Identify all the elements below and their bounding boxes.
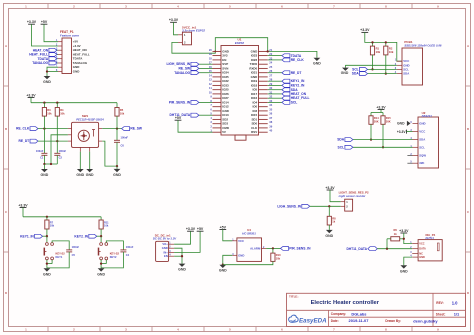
wire R10 to gnd — [223, 261, 273, 264]
IC U2 DS3231 — [410, 111, 438, 168]
net flag HEAT_FULL (ESP32) — [268, 96, 310, 100]
ground ESP32 right — [313, 58, 321, 66]
wire ALARM to PIR_SENS_IN — [266, 247, 280, 249]
svg-text:SW1: SW1 — [82, 114, 89, 118]
resistor R7 10k — [45, 217, 55, 229]
svg-text:37: 37 — [269, 116, 272, 120]
svg-text:32K: 32K — [419, 161, 424, 165]
svg-text:3.3v from ESP32: 3.3v from ESP32 — [182, 28, 205, 32]
svg-text:+3.3V: +3.3V — [376, 105, 386, 109]
IC U1 ESP32 — [209, 37, 273, 140]
wire P1 GND pins — [46, 67, 58, 76]
wire encoder switch pin B down — [102, 141, 118, 167]
rotary encoder SW1 PEC11R — [68, 114, 104, 151]
svg-text:C2: C2 — [59, 156, 63, 160]
svg-text:R3: R3 — [47, 108, 51, 112]
power flag +5V (DC-DC) — [197, 227, 204, 231]
svg-text:DS3231: DS3231 — [422, 114, 433, 118]
svg-text:SDA: SDA — [419, 138, 425, 142]
svg-text:1/1: 1/1 — [454, 312, 460, 317]
svg-text:PEC11R-4015F-S0024: PEC11R-4015F-S0024 — [76, 118, 104, 122]
svg-text:EasyEDA: EasyEDA — [299, 318, 327, 325]
resistor R2 10k — [384, 41, 394, 55]
resistor R6 1k — [387, 228, 404, 241]
svg-text:R11: R11 — [104, 220, 109, 224]
svg-text:Sheet:: Sheet: — [436, 313, 446, 317]
ground P1 — [43, 76, 51, 84]
wire LIGH_SENS node — [310, 205, 341, 207]
power flag +3.3V (VCC_int) — [169, 18, 179, 22]
svg-text:10k: 10k — [104, 224, 109, 228]
svg-text:GND: GND — [397, 122, 405, 126]
no-connect SQW — [407, 154, 412, 156]
resistor R4 10k — [55, 108, 65, 117]
svg-text:Date:: Date: — [331, 319, 339, 323]
svg-text:KEY2: KEY2 — [110, 255, 117, 259]
svg-text:R10: R10 — [276, 253, 281, 257]
svg-text:+5V: +5V — [41, 20, 48, 24]
wire encoder switch to RE_SW — [102, 116, 121, 130]
ground DC-DC — [178, 264, 186, 272]
svg-text:+3.3V: +3.3V — [26, 93, 36, 97]
wire DC-DC GND/EN — [174, 248, 183, 263]
power flag +3.3V (keys) — [18, 203, 28, 207]
svg-text:100nF: 100nF — [59, 149, 67, 153]
net flag TDATA — [38, 57, 58, 61]
svg-text:R2: R2 — [389, 46, 393, 50]
svg-text:B: B — [5, 127, 7, 131]
svg-text:Drawn By:: Drawn By: — [385, 319, 401, 323]
power flag +3.3V (DHT11) — [399, 229, 409, 233]
power flag +5V (ESP32) — [175, 116, 213, 132]
svg-text:+5V: +5V — [197, 227, 204, 231]
switch KEY2 — [99, 236, 120, 260]
resistor R1 10k — [370, 41, 380, 55]
svg-text:10k: 10k — [276, 257, 281, 261]
svg-text:+3.3V: +3.3V — [18, 203, 28, 207]
ground KEY1 — [43, 268, 51, 276]
resistor R10 10k — [271, 248, 281, 261]
capacitor C4 100nF — [101, 241, 134, 268]
svg-text:C1: C1 — [40, 156, 44, 160]
svg-text:RE_CLK: RE_CLK — [291, 58, 305, 62]
ground encoder switch — [113, 166, 121, 177]
net flag SDA (OLED) — [352, 72, 397, 76]
svg-text:35: 35 — [269, 107, 272, 111]
svg-text:NC: NC — [419, 253, 423, 256]
ground encoder shield A — [76, 169, 84, 177]
net flag HEAT_ON (ESP32) — [268, 92, 307, 96]
svg-text:Feature conn: Feature conn — [60, 34, 79, 38]
wire R1 to SCL — [371, 55, 373, 71]
svg-text:D: D — [467, 291, 469, 295]
net flag PIR_SENS_IN — [281, 247, 312, 251]
IC DHT1 DHT11 — [410, 233, 442, 261]
svg-text:C5: C5 — [72, 253, 76, 257]
net flag KEY2_IN — [74, 234, 96, 238]
resistor R14 20K — [369, 116, 379, 125]
svg-text:39: 39 — [269, 124, 272, 128]
power flag +5V (PIR) — [219, 225, 226, 229]
power flag +3.3V (DC-DC) — [186, 227, 196, 231]
svg-text:C4: C4 — [126, 253, 130, 257]
svg-text:LIGH_SENS_IN: LIGH_SENS_IN — [277, 204, 301, 208]
svg-text:10k: 10k — [60, 111, 65, 115]
svg-text:PIR_SENS_IN: PIR_SENS_IN — [289, 247, 311, 251]
component U3 5VCC_in1 — [178, 25, 205, 44]
wire R2 to SDA — [385, 55, 387, 75]
wire DHT GND — [404, 257, 412, 265]
svg-text:R4: R4 — [60, 108, 64, 112]
net flag LIGH_SENS_IN — [277, 204, 309, 208]
svg-text:DGLabs: DGLabs — [351, 311, 367, 316]
wire encoder common to gnd rail — [51, 135, 68, 164]
ground KEY2 — [97, 268, 105, 276]
net flag SCL (OLED) — [352, 68, 397, 72]
wire +3.3V to LDR pin1 — [330, 190, 341, 202]
svg-text:GND: GND — [178, 268, 186, 272]
svg-text:10k: 10k — [376, 50, 381, 54]
svg-text:R15: R15 — [386, 116, 391, 120]
svg-text:GND: GND — [400, 269, 408, 273]
svg-text:SCL: SCL — [291, 101, 298, 105]
svg-text:100nF: 100nF — [121, 135, 129, 139]
wire RE_CLK — [38, 116, 68, 130]
power flag +3.3V (encoder) — [26, 93, 36, 97]
svg-text:R8: R8 — [332, 216, 336, 220]
svg-text:100nF: 100nF — [126, 245, 134, 249]
svg-text:34: 34 — [269, 103, 272, 107]
net flag TANALOG — [32, 61, 58, 65]
svg-text:KEY-S2: KEY-S2 — [56, 252, 66, 256]
power flag +3.3V (light sensor) — [325, 186, 335, 190]
svg-text:38: 38 — [269, 120, 272, 124]
net flag RE_DT — [18, 139, 38, 143]
svg-text:36: 36 — [269, 112, 272, 116]
svg-text:TANALOG: TANALOG — [32, 61, 48, 65]
svg-text:GND: GND — [419, 121, 425, 125]
svg-text:13: 13 — [209, 78, 212, 82]
svg-text:DHT11: DHT11 — [426, 236, 435, 240]
net flag KEY2_IN (ESP32) — [268, 84, 305, 88]
capacitor C2 100nF — [54, 141, 66, 164]
wire R15 to SCL — [382, 124, 384, 148]
svg-text:14: 14 — [209, 73, 212, 77]
wire +3.3V to P1 pin2 — [32, 24, 59, 46]
svg-text:KEY-S2: KEY-S2 — [110, 252, 120, 256]
svg-text:Company:: Company: — [331, 312, 346, 316]
svg-text:RSV: RSV — [251, 130, 257, 134]
svg-text:10k: 10k — [47, 111, 52, 115]
ground encoder caps — [41, 164, 49, 177]
wire KEY1 bottom to gnd — [46, 260, 52, 269]
svg-text:+3.3V: +3.3V — [169, 18, 179, 22]
ground light sensor — [325, 225, 333, 238]
net flag LIGH_SENS_IN (ESP32) — [167, 62, 213, 66]
title block — [287, 293, 466, 326]
svg-text:27: 27 — [269, 73, 272, 77]
svg-text:B: B — [467, 127, 469, 131]
no-connect 32K — [407, 162, 412, 164]
wire +5V to PIR VCC — [223, 230, 233, 241]
ground OLED — [341, 65, 397, 75]
wire +5V to IN+ — [174, 231, 200, 252]
svg-text:20K: 20K — [386, 120, 391, 124]
svg-text:+5V: +5V — [175, 116, 182, 120]
net flag RE_CLK — [16, 127, 38, 131]
resistor R8 1k — [327, 206, 336, 225]
resistor R11 10k — [99, 217, 109, 229]
wire +3.3V to VO+ — [174, 231, 190, 244]
svg-text:HC-SR501: HC-SR501 — [242, 231, 256, 235]
switch KEY1 — [44, 236, 65, 260]
wire SCL to DS3231 — [353, 146, 413, 148]
svg-text:DATA: DATA — [419, 248, 426, 251]
svg-text:GND: GND — [86, 173, 94, 177]
svg-text:+3.3V: +3.3V — [399, 229, 409, 233]
svg-text:DC-DC 5V to 3.3V: DC-DC 5V to 3.3V — [153, 237, 177, 241]
svg-text:denn.gubsky: denn.gubsky — [413, 319, 438, 324]
wire +3.3V to R14 R15 — [371, 110, 383, 116]
svg-text:100nF: 100nF — [72, 245, 80, 249]
svg-text:KEY1: KEY1 — [56, 255, 63, 259]
svg-text:GND: GND — [97, 272, 105, 276]
wire KEY2_IN node — [97, 229, 102, 237]
svg-text:TITLE:: TITLE: — [289, 295, 298, 299]
svg-text:Light sensor resistor: Light sensor resistor — [339, 194, 367, 198]
net flag RE_SW (ESP32) — [178, 67, 212, 71]
wire VCC_in pin2 to ESP32 GND net — [172, 38, 268, 54]
wire +3.3V node DHT — [403, 233, 413, 244]
svg-text:10k: 10k — [50, 224, 55, 228]
svg-text:VCC: VCC — [238, 239, 244, 243]
svg-text:VO+: VO+ — [162, 242, 168, 246]
net flag HEAT_ON — [33, 48, 58, 52]
wire +3.3V to VCC_in pin1 — [174, 22, 179, 35]
net flag KEY1_IN (ESP32) — [268, 79, 305, 83]
net flag KEY1_IN — [20, 234, 42, 238]
ground encoder shield B — [86, 169, 94, 177]
net flag SDA (DS3231) — [337, 138, 353, 142]
svg-text:25: 25 — [269, 65, 272, 69]
capacitor C6 100nF — [114, 129, 128, 167]
svg-text:VCC: VCC — [419, 130, 425, 134]
svg-text:R1: R1 — [376, 46, 380, 50]
svg-text:VCC: VCC — [419, 243, 424, 246]
svg-text:DHT11_DATA: DHT11_DATA — [346, 247, 367, 251]
resistor R5 10k — [115, 108, 125, 117]
wire encoder shield pins to gnd — [80, 152, 89, 169]
svg-text:R5: R5 — [120, 108, 124, 112]
EasyEDA logo — [289, 315, 328, 324]
svg-text:R7: R7 — [50, 220, 54, 224]
capacitor C5 100nF — [47, 241, 80, 268]
svg-text:GND: GND — [325, 234, 333, 238]
svg-text:24: 24 — [269, 61, 272, 65]
svg-text:IN+: IN+ — [164, 250, 169, 254]
svg-text:RE_DT: RE_DT — [291, 71, 302, 75]
svg-text:+3.3V: +3.3V — [186, 227, 196, 231]
net flag SCL (DS3231) — [338, 145, 353, 149]
svg-text:RE_CLK: RE_CLK — [16, 127, 30, 131]
svg-text:SDA: SDA — [403, 72, 409, 76]
wire +3.3V key rail — [23, 208, 101, 218]
svg-text:KEY1_IN: KEY1_IN — [20, 234, 34, 238]
power flag +5V (P1) — [41, 20, 48, 24]
svg-text:SCL: SCL — [338, 145, 345, 149]
power flag +3.3V (DS3231) — [376, 105, 386, 109]
connector LIGHT_SENS_RES_P2 — [339, 191, 369, 211]
resistor R3 10k — [42, 108, 52, 117]
svg-text:1.0: 1.0 — [452, 300, 458, 305]
wire PIR GND — [222, 255, 233, 266]
svg-text:GND: GND — [43, 80, 51, 84]
wire KEY2 bottom to gnd — [100, 260, 106, 269]
net flag SDA (ESP32) — [268, 88, 299, 92]
svg-text:SDA: SDA — [352, 72, 360, 76]
wire +3.3V to OLED VCC — [365, 32, 402, 61]
wire DHT data — [377, 239, 412, 250]
IC U4 HC-SR501 — [232, 228, 266, 261]
svg-text:GND: GND — [219, 269, 227, 273]
svg-text:20: 20 — [209, 48, 212, 52]
svg-text:GND: GND — [162, 246, 168, 250]
wire KEY1_IN node — [43, 229, 48, 237]
net flag DHT11_DATA (ESP32) — [170, 113, 213, 117]
wire R4 drop — [56, 103, 58, 108]
svg-text:40: 40 — [269, 129, 272, 133]
IC PCB1 SSD1306 OLED — [395, 40, 442, 85]
wire ESP32 GND right — [267, 50, 317, 57]
svg-text:KEY2_IN: KEY2_IN — [74, 234, 88, 238]
svg-text:10k: 10k — [120, 111, 125, 115]
svg-text:+3.3V: +3.3V — [27, 20, 37, 24]
svg-text:+3.3V: +3.3V — [360, 28, 370, 32]
svg-text:2019-11-07: 2019-11-07 — [349, 318, 370, 323]
net flag PIR_SENS_IN (ESP32) — [169, 101, 213, 105]
connector P1 FEAT_P1 — [56, 30, 90, 73]
wire RE_DT — [38, 116, 68, 142]
svg-text:R14: R14 — [374, 116, 379, 120]
svg-text:GND: GND — [238, 253, 244, 257]
svg-text:GND: GND — [41, 173, 49, 177]
svg-text:GND: GND — [313, 62, 321, 66]
svg-text:18: 18 — [209, 56, 212, 60]
svg-text:GND: GND — [76, 173, 84, 177]
svg-text:GND: GND — [419, 256, 425, 259]
svg-text:GND: GND — [73, 70, 80, 74]
ground DS3231 GND pin — [397, 121, 411, 126]
svg-text:ALARM: ALARM — [250, 246, 261, 250]
svg-text:+3.3V: +3.3V — [397, 130, 406, 134]
svg-text:Electric Heater controller: Electric Heater controller — [311, 300, 380, 306]
svg-text:SQW: SQW — [419, 153, 426, 157]
net flag SCL (ESP32) — [268, 101, 298, 105]
ground DHT11 — [400, 265, 408, 273]
svg-text:10: 10 — [209, 90, 212, 94]
svg-text:12: 12 — [209, 82, 212, 86]
svg-text:SCL: SCL — [419, 145, 425, 149]
svg-text:C6: C6 — [121, 144, 125, 148]
svg-text:ESP32: ESP32 — [235, 41, 245, 45]
wire R14 to SDA — [370, 124, 372, 140]
capacitor C1 100nF — [36, 129, 48, 164]
svg-text:100nF: 100nF — [36, 149, 44, 153]
svg-text:GND: GND — [341, 71, 349, 75]
svg-text:R6: R6 — [394, 228, 398, 232]
wire encoder gnd rail — [43, 163, 57, 165]
svg-text:GND: GND — [43, 272, 51, 276]
ground PIR — [219, 265, 227, 273]
svg-text:REV:: REV: — [436, 301, 443, 305]
svg-text:SDA: SDA — [337, 138, 345, 142]
svg-text:RE_SW: RE_SW — [130, 127, 143, 131]
net flag TANALOG (ESP32) — [174, 71, 212, 75]
wire +3.3V rail encoder — [31, 98, 117, 108]
svg-text:19: 19 — [209, 52, 212, 56]
svg-text:TANALOG: TANALOG — [174, 71, 190, 75]
net flag RE_SW (encoder) — [122, 127, 143, 131]
power flag +3.3V DS3231 VCC — [397, 130, 413, 134]
net flag HEAT_FULL — [29, 53, 58, 57]
svg-text:SSD1306 128x64 OLED 0.96: SSD1306 128x64 OLED 0.96 — [404, 43, 441, 47]
power flag +3.3V (P1) — [27, 20, 37, 24]
resistor R15 20K — [381, 116, 391, 125]
net flag DHT11_DATA — [346, 247, 377, 251]
svg-text:RE_DT: RE_DT — [18, 139, 29, 143]
net flag RE_DT (ESP32) — [268, 71, 302, 75]
wire R3 drop — [43, 103, 45, 108]
svg-text:PIR_SENS_IN: PIR_SENS_IN — [169, 101, 191, 105]
wire SDA to DS3231 — [353, 139, 413, 141]
svg-text:20K: 20K — [374, 120, 379, 124]
component DC_DC_in1 — [153, 233, 177, 261]
svg-text:+3.3V: +3.3V — [325, 186, 335, 190]
net flag TDATA (ESP32) — [268, 54, 302, 58]
svg-text:10k: 10k — [389, 50, 394, 54]
svg-text:5V: 5V — [222, 130, 226, 134]
svg-text:D: D — [5, 291, 7, 295]
wire +5V to P1 pin1 — [44, 24, 58, 42]
svg-text:+5V: +5V — [220, 225, 227, 229]
svg-text:EN: EN — [164, 254, 168, 258]
svg-text:GND: GND — [113, 173, 121, 177]
net flag RE_CLK (ESP32) — [268, 58, 305, 62]
power flag +3.3V (OLED) — [360, 28, 370, 32]
